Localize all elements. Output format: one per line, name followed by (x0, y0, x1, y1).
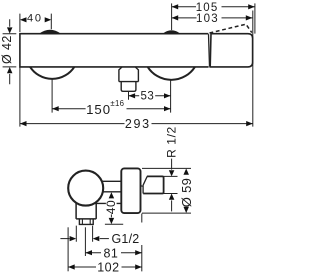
svg-text:105: 105 (196, 2, 219, 14)
dim R1/2: ticks (164, 176, 178, 193)
wall escutcheon (side view) (121, 168, 140, 213)
dim 81: arrow right (135, 250, 142, 255)
dim 53: lines (129, 95, 171, 97)
dim G1/2: right arrow line (100, 238, 109, 240)
dim 40 top: arrow right (45, 17, 52, 22)
dim 102: extension line left (67, 227, 69, 271)
dim 40 top: extension lines (20, 14, 51, 32)
dim 102: arrow left (68, 264, 75, 269)
svg-text:40: 40 (27, 13, 43, 25)
dim R1/2: arrow down (169, 170, 175, 176)
dim Ø42: leader lines (9, 19, 11, 84)
svg-text:Ø 42: Ø 42 (0, 35, 14, 64)
dim Ø42: arrow up (7, 67, 13, 73)
dim 81: arrow left (85, 250, 92, 255)
dim G1/2: arrow pointing left (93, 236, 100, 241)
dim 105: arrow left (172, 4, 179, 9)
dim R1/2: lower line (171, 200, 173, 211)
svg-text:R 1/2: R 1/2 (164, 126, 178, 158)
dim Ø42: arrow down (7, 27, 13, 33)
outlet G1/2 thread (side view) (79, 219, 93, 225)
right connection dome (163, 30, 181, 34)
dim 105: right extension line (254, 3, 256, 33)
dim 53: arrow left (129, 93, 136, 98)
spout upper part (top view) (119, 67, 138, 82)
dashed handle raised position (210, 24, 252, 33)
right escutcheon arc (top view) (148, 67, 195, 80)
handle end cap (top view) (210, 34, 252, 67)
dim G1/2: left arrow line (60, 238, 69, 240)
svg-text:53: 53 (141, 91, 155, 103)
body arm mid edge (side view) (103, 191, 122, 193)
dim 102: arrow right (135, 264, 142, 269)
pipe chamfer (141, 176, 147, 193)
dim 103: lines (172, 17, 253, 19)
dim 81: extension line left (84, 227, 86, 256)
dim 81/102: extension line right (wall plane) (141, 214, 143, 272)
dim 40 side: arrow up (109, 192, 115, 198)
svg-text:150: 150 (86, 102, 111, 117)
dim 103: arrow right (246, 15, 253, 20)
dim R1/2: leader line (171, 159, 173, 170)
dim 40 side: tick (105, 223, 123, 225)
dim 103: arrow left (172, 15, 179, 20)
svg-text:G1/2: G1/2 (112, 232, 140, 246)
svg-text:293: 293 (125, 117, 151, 131)
outlet collar (side view) (76, 202, 96, 219)
svg-text:40: 40 (104, 200, 118, 214)
dim 105: lines (172, 6, 255, 8)
dim G1/2: arrow pointing right (70, 236, 77, 241)
dim 105/103: left extension line (171, 3, 173, 30)
dim 53: arrow right (164, 93, 171, 98)
dim Ø42: extension ticks (3, 34, 17, 67)
dim 150: arrow left (52, 106, 59, 111)
svg-text:103: 103 (196, 13, 219, 25)
dim 293: arrow right (246, 121, 253, 126)
svg-text:102: 102 (97, 261, 119, 275)
dim Ø59: arrow up (183, 169, 189, 175)
dim 53: extension line (128, 92, 130, 100)
dim Ø59: arrow down (183, 207, 189, 213)
dim 150: lines (52, 108, 171, 110)
joint between body and handle cap (209, 34, 210, 67)
handle knob circle (side view) (68, 171, 103, 206)
spout lower part (top view) (121, 82, 136, 92)
dim 105: arrow right (248, 4, 255, 9)
wall bar body (top view) (20, 34, 209, 67)
dim 40 side: arrow down (109, 218, 115, 224)
dim 293: lines (20, 123, 253, 125)
body bottom edge (side view) (94, 202, 122, 204)
dim 293: arrow left (20, 121, 27, 126)
dim 150: extension lines (52, 79, 171, 112)
dim R1/2: arrow up (169, 194, 175, 200)
dim 40 top: arrow left (20, 17, 27, 22)
svg-text:81: 81 (103, 246, 118, 260)
dim 40 side: line (110, 214, 112, 217)
dim Ø59: ticks (142, 168, 191, 213)
pipe connection (side view) (143, 176, 163, 193)
svg-text:Ø 59: Ø 59 (179, 178, 194, 207)
outlet thread inner lines (82, 219, 90, 224)
svg-text:±16: ±16 (110, 99, 124, 108)
dim 293: extension lines (20, 11, 253, 127)
dim G1/2: extension lines (76, 226, 92, 242)
dim 81: lines (85, 252, 141, 254)
dim 102: lines (68, 266, 142, 268)
left escutcheon arc (top view) (30, 67, 74, 79)
dim 150: arrow right (164, 106, 171, 111)
left connection dome (39, 30, 61, 34)
body arm top edge (side view) (102, 180, 122, 182)
